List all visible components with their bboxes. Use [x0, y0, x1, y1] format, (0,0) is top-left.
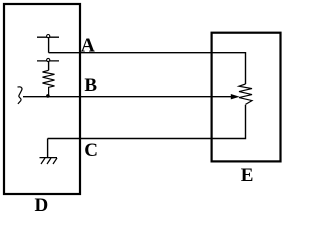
ground (chassis) — [40, 139, 58, 165]
svg-text:D: D — [35, 195, 49, 216]
break squiggle (left end of line B) — [18, 87, 23, 104]
svg-text:E: E — [241, 165, 254, 186]
box E (load device outline) — [212, 33, 281, 162]
wiper arrow — [231, 94, 240, 99]
wire line B — [23, 96, 233, 98]
junction dot on line B — [46, 94, 50, 98]
potentiometer R2 (zigzag in box E) — [239, 84, 252, 104]
svg-text:B: B — [84, 75, 97, 96]
terminal J1 (bar with circle, node A) — [37, 35, 59, 53]
box D (source device outline) — [4, 4, 80, 194]
wire line A — [49, 53, 246, 84]
svg-text:C: C — [84, 140, 98, 161]
terminal J2 (bar with circle, above resistor) — [37, 58, 59, 70]
svg-text:A: A — [81, 36, 95, 57]
wire line C — [48, 105, 246, 139]
resistor R1 (vertical zigzag in box D) — [43, 70, 55, 96]
